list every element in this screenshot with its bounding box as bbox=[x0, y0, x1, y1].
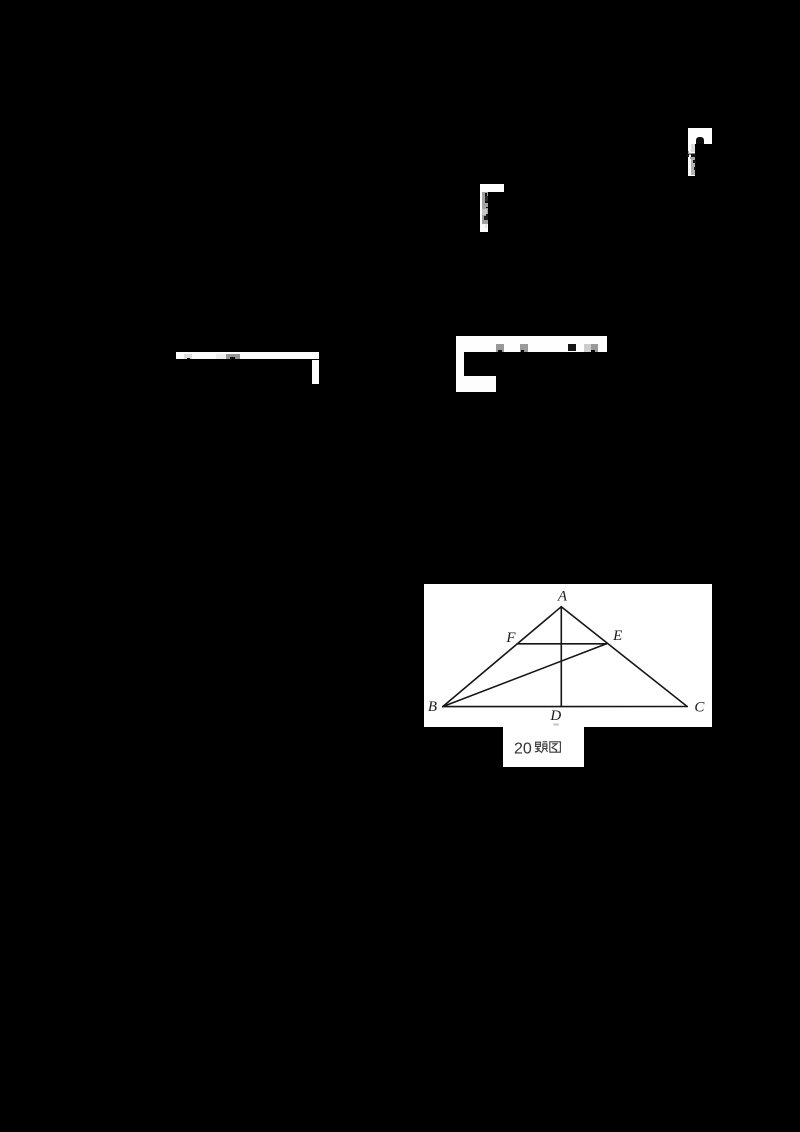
glyph grays in P1 column bbox=[691, 144, 696, 153]
svg-text:E: E bbox=[612, 628, 622, 644]
white patch P3 (left strip) : horizontal bar bbox=[176, 352, 320, 359]
white patch P2 : left column bbox=[480, 192, 488, 232]
cevian AD bbox=[560, 606, 562, 705]
figure white box bbox=[424, 584, 712, 727]
segment FE bbox=[517, 643, 606, 645]
caption "20 题图" bbox=[503, 727, 584, 767]
geometry figure SVG bbox=[424, 584, 712, 727]
glyph cap (dark blob) in P1 bbox=[696, 137, 704, 143]
side AB bbox=[442, 606, 561, 706]
white patch P4 : left column bbox=[456, 352, 464, 375]
svg-text:A: A bbox=[557, 588, 568, 604]
svg-text:B: B bbox=[428, 699, 437, 715]
caption white box bbox=[503, 727, 584, 767]
glyph grays in P2 column bbox=[482, 192, 488, 223]
white patch P4 : bottom bar bbox=[456, 376, 496, 393]
white patch P1 (top-right fragment) : top bar bbox=[688, 128, 712, 144]
side AC bbox=[561, 606, 687, 706]
white patch P1 : left column bbox=[688, 144, 696, 176]
smudge under D bbox=[553, 723, 558, 725]
segment BE bbox=[442, 644, 606, 707]
glyph bits on P3 bar bbox=[184, 354, 193, 360]
svg-text:20: 20 bbox=[514, 740, 532, 757]
svg-text:F: F bbox=[505, 630, 516, 646]
white patch P4 (mid bracket) : top bar bbox=[456, 336, 607, 353]
glyph bits hanging from P4 top bar bbox=[496, 344, 504, 352]
white patch P3 : right column bbox=[312, 360, 319, 384]
hanzi ti (题) bbox=[535, 742, 548, 753]
svg-text:C: C bbox=[694, 699, 705, 715]
hanzi tu (图) bbox=[550, 742, 561, 752]
svg-text:D: D bbox=[549, 708, 561, 724]
side BC bbox=[442, 705, 686, 707]
white patch P2 (middle fragment) : top bar bbox=[480, 184, 504, 192]
